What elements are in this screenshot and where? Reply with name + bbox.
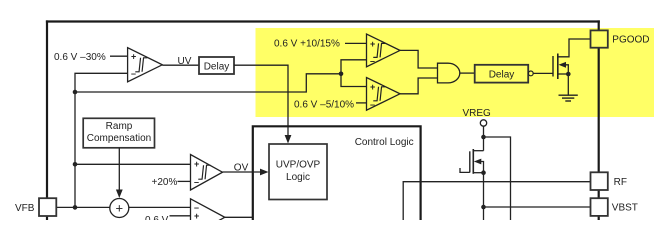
wire: +20% to OV comparator - input	[178, 180, 191, 182]
comparator U1 (UV)	[128, 48, 163, 82]
svg-text:VBST: VBST	[612, 203, 638, 214]
svg-text:+: +	[194, 211, 199, 220]
wire: UV comparator - input	[75, 73, 128, 207]
svg-text:0.6 V +10/15%: 0.6 V +10/15%	[274, 38, 340, 49]
pin RF	[591, 172, 627, 190]
control logic box	[253, 126, 421, 220]
comparator U2 (OVP window)	[367, 34, 401, 67]
svg-text:VREG: VREG	[463, 108, 492, 119]
delay block D1	[199, 57, 234, 74]
wire: delay output to Q1 gate	[533, 72, 553, 74]
wire: Delay output to UVP/OVP logic	[234, 65, 288, 136]
comparator U4 (OV)	[191, 155, 223, 191]
summing junction S1	[110, 199, 129, 218]
svg-text:UV: UV	[178, 56, 192, 67]
node: feedback junction at UV comparator	[73, 90, 78, 95]
AND gate G1	[438, 63, 460, 83]
VREG terminal circle	[480, 120, 486, 126]
svg-text:–: –	[194, 177, 199, 187]
svg-text:Control Logic: Control Logic	[355, 137, 414, 148]
wire: UV comparator output to Delay	[162, 64, 199, 66]
frame: IC boundary	[46, 20, 600, 220]
svg-text:OV: OV	[234, 163, 249, 174]
wire: feedback to window comparator inputs	[341, 60, 367, 87]
wire: RF line	[403, 182, 590, 220]
svg-text:+20%: +20%	[152, 177, 178, 188]
wire: 0.6V to PWM comparator + input	[170, 215, 191, 217]
node: VFB junction	[73, 205, 78, 210]
svg-text:UVP/OVP: UVP/OVP	[276, 160, 321, 171]
node: feedback junction at OV comparator	[73, 162, 78, 167]
svg-text:+: +	[116, 201, 124, 216]
UVP/OVP logic box	[269, 144, 327, 200]
transistor Q1 (PGOOD pulldown MOSFET)	[553, 39, 591, 95]
svg-text:0.6 V: 0.6 V	[145, 215, 169, 220]
yellow highlight region	[256, 28, 654, 117]
wire: lower comparator output to AND gate	[400, 78, 438, 94]
svg-text:Logic: Logic	[286, 172, 310, 183]
wire: VFB line to summing junction	[56, 206, 110, 208]
ground	[559, 95, 578, 101]
inverter bubble on Delay output	[528, 71, 533, 76]
svg-text:+: +	[131, 52, 136, 62]
svg-text:RF: RF	[614, 177, 627, 188]
wire: upper comparator output to AND gate	[400, 50, 438, 68]
svg-text:PGOOD: PGOOD	[612, 35, 649, 46]
wire: UV comparator + input from 0.6V-30% label	[110, 55, 128, 57]
arrowhead into UVP/OVP top	[285, 135, 292, 144]
wire: ramp compensation to summing junction	[118, 148, 120, 191]
node: VBST junction	[481, 205, 486, 210]
comparator U5 (PWM, clipped)	[191, 199, 225, 236]
wire: PWM comparator output to control logic	[225, 216, 253, 218]
arrowhead into UVP/OVP left	[260, 169, 269, 176]
node: window comparator input junction	[339, 72, 344, 77]
wire: OV output to UVP/OVP logic	[223, 171, 262, 173]
wire: AND gate output to Delay	[460, 72, 475, 74]
delay block D2	[475, 65, 529, 83]
wire: VREG to Q2 drain	[483, 126, 485, 151]
wire: VREG branch right and down	[484, 137, 511, 220]
svg-text:–: –	[131, 69, 136, 79]
svg-text:Compensation: Compensation	[87, 133, 151, 144]
comparator U3 (UVP window)	[367, 78, 401, 111]
wire: Q2 source down to VBST line	[483, 173, 485, 220]
ramp compensation block	[83, 118, 154, 148]
node: VREG branch	[481, 135, 486, 140]
svg-text:VFB: VFB	[15, 203, 35, 214]
svg-text:+: +	[194, 159, 199, 169]
svg-text:0.6 V –5/10%: 0.6 V –5/10%	[294, 100, 354, 111]
transistor Q2 (bootstrap switch MOSFET)	[460, 149, 486, 175]
svg-text:+: +	[370, 82, 375, 92]
arrowhead into summing junction	[116, 190, 123, 199]
svg-text:0.6 V –30%: 0.6 V –30%	[54, 52, 106, 63]
wire: + input upper window comparator	[345, 42, 367, 44]
svg-text:Delay: Delay	[204, 61, 230, 72]
wire: VBST line to pin	[484, 206, 591, 208]
svg-text:+: +	[370, 39, 375, 49]
pin VBST	[591, 198, 638, 216]
svg-text:Ramp: Ramp	[106, 121, 133, 132]
svg-text:Delay: Delay	[489, 69, 515, 80]
wire: summing junction to PWM comparator - input	[129, 206, 191, 208]
wire: feedback branch to OV comparator + input	[75, 163, 191, 165]
wire: - input lower window comparator	[356, 102, 367, 104]
pin PGOOD	[591, 30, 650, 47]
pin VFB	[15, 198, 56, 216]
wire: feedback line to window comparators	[75, 74, 341, 92]
